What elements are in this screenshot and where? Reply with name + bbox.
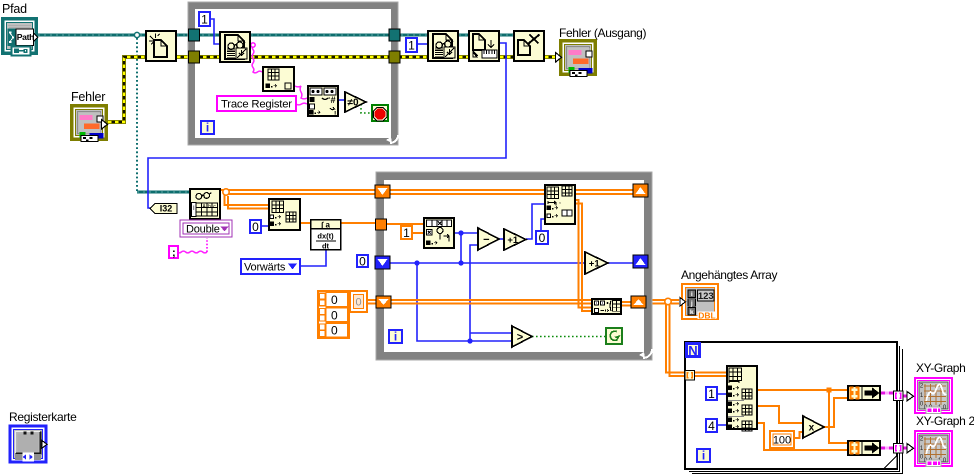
wire 2D tunnel to index array 3 — [694, 373, 726, 377]
wire blue increment2 to shift register — [608, 262, 633, 264]
while loop 2 iteration arrow — [639, 349, 652, 358]
wire path branch down to Read Spreadsheet VI — [137, 38, 189, 192]
VI derivative dx dt — [311, 220, 341, 251]
ring constant Double — [180, 220, 232, 237]
label Angehaengtes Array — [681, 268, 777, 282]
wire error Fehler to open-file VI — [108, 57, 145, 122]
node junction x470 — [467, 338, 472, 343]
svg-text:x: x — [809, 423, 815, 434]
svg-text:i: i — [702, 449, 705, 463]
svg-text:0: 0 — [539, 231, 546, 245]
wire 2D loop out to indicator — [647, 300, 679, 304]
shift register 2D bottom left — [376, 296, 391, 308]
wire blue shift register horizontal — [390, 262, 585, 264]
svg-text:i: i — [394, 330, 397, 344]
wire 2D shift register to build array — [390, 300, 591, 304]
array element grayed 0 — [350, 291, 367, 312]
VI spreadsheet string to array — [263, 67, 294, 91]
svg-text:1: 1 — [408, 38, 415, 52]
wire orange derivative to loop tunnel — [341, 222, 380, 224]
svg-text:i: i — [206, 121, 209, 135]
shift register 2D right — [633, 184, 648, 197]
wire blue vertical x417 to compare — [417, 263, 512, 341]
VI get file size — [469, 31, 499, 61]
label XY-Graph — [916, 361, 965, 375]
VI read text file loop1 — [220, 32, 250, 62]
svg-text:I32: I32 — [160, 204, 173, 214]
wire string read VI to spreadsheet-string VI — [251, 43, 262, 73]
svg-text:!: ! — [334, 111, 336, 118]
wire blue search result — [455, 232, 478, 234]
wire error open VI to loop tunnel — [177, 55, 192, 59]
indicator XY-Graph 2 — [915, 431, 952, 467]
control Registerkarte tab control — [10, 426, 47, 462]
VI open-create file — [146, 31, 176, 61]
arithmetic increment 2 — [585, 252, 608, 274]
shift register 2D left — [375, 185, 390, 198]
wire error tunnel to read VI — [196, 55, 219, 59]
svg-text:0: 0 — [331, 308, 338, 322]
wire cluster bundle to XY-Graph — [881, 393, 908, 396]
svg-text:−: − — [483, 234, 489, 246]
wire blue match VI to not-equal-zero — [339, 99, 345, 101]
wire orange index array to derivative VI — [301, 222, 310, 224]
iteration terminal loop3 — [697, 449, 710, 463]
svg-text:Pfad: Pfad — [2, 2, 27, 16]
wire boolean compare to loop condition — [532, 336, 606, 338]
indicator Angehaengtes Array — [680, 284, 718, 320]
label Trace Register — [217, 96, 296, 111]
svg-text:!: ! — [312, 111, 314, 118]
node junction row1 — [827, 388, 832, 393]
wire orange multiply to bundle — [824, 398, 847, 427]
wire error right tunnel to read VI 2 — [395, 55, 427, 59]
shift register blue right — [633, 255, 648, 268]
bundle cluster 2 — [848, 441, 880, 455]
arithmetic multiply — [803, 416, 824, 438]
constant 0 loop2 blue — [536, 231, 548, 245]
tunnel error right — [389, 51, 400, 63]
svg-text:>: > — [517, 331, 523, 343]
svg-text:Angehängtes Array: Angehängtes Array — [681, 268, 777, 282]
wire path across loop to right tunnel — [251, 34, 395, 37]
wire blue increment to insert VI — [526, 204, 544, 239]
constant 1 loop3 — [706, 387, 717, 401]
for loop frame — [685, 342, 903, 474]
VI index array mid — [269, 199, 300, 230]
wire blue constant 1 to read VI — [210, 19, 219, 44]
wire 2D array read spreadsheet to shift register — [221, 190, 376, 194]
node junction search out — [458, 230, 463, 235]
svg-text:1: 1 — [708, 387, 715, 401]
string constant semicolon — [169, 246, 178, 259]
wire blue constant 1b to read VI 2 — [417, 43, 427, 45]
constant 1 loop1 — [199, 12, 210, 26]
svg-text:i: i — [691, 291, 693, 298]
svg-text:Registerkarte: Registerkarte — [9, 410, 77, 424]
svg-text:dx(t): dx(t) — [317, 232, 334, 241]
shift register 2D bottom right — [631, 296, 646, 308]
svg-text:Fehler: Fehler — [71, 90, 105, 104]
svg-text:+1: +1 — [589, 258, 601, 269]
comparison greater — [512, 326, 532, 347]
constant 0 left of blue SR — [357, 254, 368, 268]
control Pfad path — [3, 19, 38, 56]
wire blue 0 constant to insert VI — [541, 219, 544, 230]
wire 2D shift register to insert VI — [390, 190, 544, 194]
tunnel orange square — [376, 219, 387, 230]
wire blue constant 4 to index array 3 — [718, 424, 726, 426]
label Fehler — [71, 90, 105, 104]
node junction after loop — [665, 298, 671, 304]
svg-text:N: N — [688, 343, 697, 358]
array constant 2D zeros — [318, 291, 349, 338]
svg-text:b: b — [208, 204, 211, 210]
loop condition continue terminal — [606, 328, 622, 344]
label Pfad — [2, 2, 27, 16]
svg-text:Double: Double — [186, 224, 220, 236]
wire orange junction down to bundle2 — [829, 392, 847, 443]
stop button terminal — [372, 105, 388, 121]
svg-text:Fehler (Ausgang): Fehler (Ausgang) — [559, 26, 646, 40]
svg-text:k: k — [690, 309, 694, 316]
svg-text:1: 1 — [403, 226, 410, 240]
svg-text:+1: +1 — [507, 235, 519, 246]
svg-text:#: # — [330, 95, 335, 105]
wire 2D build array to shift register out — [622, 302, 632, 306]
wire path tunnel to read VI — [196, 34, 219, 37]
wire path size VI to close VI — [500, 34, 513, 37]
conversion to I32 — [150, 204, 177, 214]
wire blue branch to compare top — [470, 332, 512, 334]
tunnel path left — [189, 29, 200, 41]
VI search 1D array — [424, 218, 454, 248]
ring constant Vorwaerts — [241, 259, 300, 274]
wire 2D insert VI branch down to build array — [576, 200, 591, 311]
svg-text:123: 123 — [698, 291, 714, 302]
wire error close VI to Fehler Ausgang — [545, 55, 559, 59]
svg-text:4: 4 — [708, 419, 715, 433]
count terminal N for loop — [687, 343, 700, 358]
svg-text:DBL: DBL — [698, 310, 715, 320]
wire I32 file size to conversion — [148, 43, 506, 208]
node 2D wire junction — [223, 189, 229, 195]
wire blue constant 1 to index array 3 — [718, 393, 726, 395]
label Registerkarte — [9, 410, 77, 424]
wire string spreadsheet VI to match VI — [295, 86, 307, 99]
VI read from spreadsheet file — [190, 189, 220, 219]
while loop 1 iteration arrow — [386, 135, 398, 143]
comparison not equal zero — [345, 92, 366, 112]
constant 0 index array — [250, 220, 261, 234]
VI index array for loop — [727, 366, 757, 431]
svg-text:,: , — [559, 198, 561, 205]
svg-text:Trace Register: Trace Register — [221, 99, 292, 111]
wire error across loop to right tunnel — [251, 55, 395, 59]
wire orange row1 to bundle — [758, 389, 847, 391]
wire blue 0 to index array — [261, 225, 268, 227]
node path wire junction — [134, 32, 139, 37]
constant 100 ring — [770, 431, 794, 448]
svg-text:Vorwärts: Vorwärts — [244, 262, 286, 274]
wire 2D branch down to for loop — [666, 304, 685, 376]
node junction x461b — [458, 260, 463, 265]
wire 2D insert VI to shift register up — [576, 190, 633, 194]
wire orange constant 1 to search VI — [412, 232, 423, 234]
wire blue subtract y-input vertical — [470, 245, 478, 341]
iteration terminal loop2 — [389, 330, 402, 344]
while loop 1 frame — [188, 2, 398, 145]
VI match pattern — [308, 86, 338, 118]
constant 1 orange loop2 — [401, 226, 412, 240]
iteration terminal loop1 — [201, 121, 214, 135]
wire path right tunnel to read VI 2 — [395, 34, 427, 37]
VI build array — [592, 299, 621, 314]
VI read text file 2 — [428, 31, 458, 61]
arithmetic subtract — [478, 228, 499, 250]
svg-text:100: 100 — [773, 435, 791, 447]
arithmetic increment — [504, 229, 526, 250]
wire orange row2 to multiply — [758, 406, 803, 423]
node junction x417 — [414, 260, 419, 265]
wire error read VI 2 to size VI — [459, 55, 468, 59]
wire blue vertical x461 — [460, 233, 462, 263]
wire orange 100 to multiply — [794, 432, 803, 438]
svg-text:1: 1 — [201, 12, 208, 26]
svg-text:j: j — [690, 300, 693, 307]
svg-text:0: 0 — [331, 324, 338, 338]
tunnel error left — [189, 51, 200, 63]
VI insert into array — [545, 185, 575, 224]
wire string Trace Register to match VI — [296, 103, 307, 105]
label XY-Graph 2 — [916, 414, 974, 428]
indicator Fehler Ausgang error cluster — [556, 41, 596, 77]
shift register blue left — [375, 256, 390, 269]
tunnel cluster out 1 — [894, 391, 904, 401]
wire blue subtract to increment — [499, 238, 504, 240]
svg-text:XY-Graph 2: XY-Graph 2 — [916, 414, 974, 428]
label Fehler (Ausgang) — [559, 26, 646, 40]
svg-text:XY-Graph: XY-Graph — [916, 361, 965, 375]
wire path open VI to loop tunnel — [177, 34, 192, 37]
wire 2D branch to index array — [225, 195, 269, 209]
tunnel array in for loop — [685, 371, 695, 381]
svg-text:dt: dt — [322, 242, 330, 251]
constant 1 after loop1 — [406, 38, 417, 52]
svg-text:0: 0 — [252, 220, 259, 234]
svg-text:;: ; — [172, 247, 176, 259]
svg-text:0: 0 — [355, 297, 361, 309]
svg-text:∫ a: ∫ a — [320, 221, 330, 230]
svg-text:Path: Path — [17, 32, 34, 42]
VI close file — [514, 31, 544, 61]
wire orange row3 to bundle2 — [758, 423, 847, 450]
tunnel cluster out 2 — [894, 444, 904, 454]
wire error size VI to close VI — [500, 55, 513, 59]
indicator XY-Graph — [915, 378, 952, 414]
while loop 2 frame — [376, 172, 652, 360]
wire string semicolon constant — [177, 238, 207, 253]
wire path Pfad to open-file VI — [38, 34, 145, 37]
wire boolean to stop terminal — [361, 104, 372, 113]
wire cluster bundle2 to XY-Graph 2 — [881, 447, 908, 450]
wire 2D array constant to shift register bottom — [367, 300, 377, 304]
wire blue Vorwaerts to derivative VI — [300, 250, 326, 266]
control Fehler error cluster — [72, 106, 108, 142]
bundle cluster 1 — [848, 386, 880, 400]
wire path read VI 2 to size VI — [459, 34, 468, 37]
tunnel path right — [389, 29, 400, 41]
constant 4 loop3 — [706, 419, 717, 433]
svg-text:0: 0 — [359, 254, 366, 268]
svg-text:≠0: ≠0 — [347, 98, 358, 109]
svg-text:0: 0 — [331, 293, 338, 307]
wire orange tunnel to search VI — [386, 223, 423, 225]
